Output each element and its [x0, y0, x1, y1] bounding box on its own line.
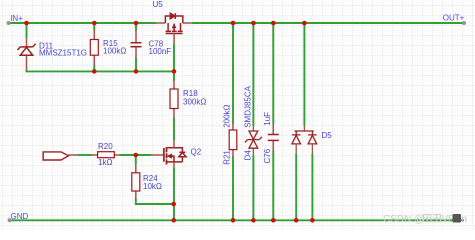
zener diode D11 — [17, 39, 35, 70]
wire R21 top — [232, 23, 234, 124]
junction GND C76 — [271, 218, 276, 223]
Q2 drain lead — [173, 140, 175, 147]
U5 source pin — [156, 22, 165, 24]
wire D4 top — [252, 23, 254, 126]
Q2 channel dashes — [166, 147, 168, 164]
wire D4 bottom — [252, 156, 254, 221]
svg-text:OUT+: OUT+ — [443, 14, 465, 23]
U5 right contact stub — [180, 23, 182, 30]
wire R18 to Q2 drain — [173, 118, 175, 141]
U5 bulk line with arrow — [173, 24, 175, 31]
U5 channel dashes — [166, 30, 183, 32]
svg-text:U5: U5 — [153, 0, 164, 9]
wire R24 bottom to Q2 source line — [136, 198, 174, 204]
n-mosfet Q2 — [151, 140, 186, 168]
wire R21 bottom — [232, 157, 234, 221]
junction GND D4 — [251, 218, 256, 223]
junction GND Q2 — [171, 218, 176, 223]
U5 gate plate — [166, 33, 183, 35]
junction gate row R24 — [134, 153, 139, 158]
wire R20 to Q2 gate — [120, 154, 152, 156]
junction top rail C76 — [271, 21, 276, 26]
U5 body diode loop — [165, 16, 182, 23]
svg-text:CSDN @: CSDN @ — [383, 214, 424, 225]
wire Q2 source to GND rail — [173, 168, 175, 220]
junction mid rail C78 — [134, 69, 139, 74]
junction top rail D5 — [302, 21, 307, 26]
Q2 body diode triangle — [179, 153, 186, 157]
svg-text:R21: R21 — [223, 150, 232, 165]
junction top rail R21 — [231, 21, 236, 26]
D4 bottom triangle — [249, 140, 258, 148]
wire D11 top stub — [26, 23, 28, 39]
svg-text:1kΩ: 1kΩ — [98, 158, 112, 167]
Q2 source lead — [173, 162, 175, 168]
dual diode D5 — [292, 126, 317, 154]
wire top rail right (U5 drain pin to OUT+) — [192, 22, 464, 24]
D5 left triangle — [292, 135, 301, 144]
wire D5 left leg to GND — [295, 154, 297, 220]
TVS diode D4 — [245, 126, 262, 155]
svg-text:300kΩ: 300kΩ — [183, 98, 206, 107]
svg-text:C76: C76 — [263, 148, 272, 163]
wire C76 bottom — [272, 151, 274, 221]
resistor R15 — [90, 30, 98, 66]
resistor R21 — [229, 124, 237, 157]
tag pin — [69, 154, 78, 156]
D5 right anode pin — [311, 144, 313, 154]
svg-text:D4: D4 — [244, 150, 253, 161]
svg-text:MMSZ15T1G: MMSZ15T1G — [39, 49, 87, 58]
svg-text:n: n — [462, 214, 468, 225]
D5 right triangle — [308, 135, 317, 144]
wire U5 gate to mid rail node — [173, 44, 175, 72]
D4 waist bar with tails — [245, 137, 262, 143]
wire mid rail (D11/R15/C78 bottoms to U5 gate node) — [27, 70, 175, 71]
junction top rail C78 — [134, 21, 139, 26]
port GND — [8, 218, 12, 222]
sheet entry tag — [43, 152, 68, 160]
D5 right cathode stub and bar — [308, 131, 317, 135]
junction mid rail R15 — [92, 69, 97, 74]
resistor R24 — [132, 165, 140, 199]
U5 drain pin — [183, 22, 192, 24]
wire GND bottom rail — [10, 219, 465, 221]
svg-text:1uF: 1uF — [263, 112, 272, 126]
D5 left anode pin — [295, 144, 297, 154]
junction top rail D4 — [251, 21, 256, 26]
Q2 gate pin — [151, 154, 163, 156]
svg-text:200kΩ: 200kΩ — [223, 104, 232, 127]
wire top rail left (IN+ to U5 source pin) — [9, 22, 156, 24]
svg-text:D5: D5 — [322, 131, 333, 140]
U5 body diode triangle — [170, 13, 175, 18]
wire C78 top stub — [135, 23, 137, 31]
junction GND D5 right — [310, 218, 315, 223]
U5 left contact stub — [167, 23, 169, 30]
junction R24 to Q2 source — [171, 202, 176, 207]
U5 body diode bar — [174, 13, 176, 19]
port OUT+ — [462, 21, 466, 25]
D4 top triangle — [249, 131, 258, 139]
junction top rail D11 — [24, 21, 29, 26]
wire gate node down to R24 — [135, 155, 137, 165]
resistor R18 — [170, 81, 178, 118]
svg-text:GND: GND — [11, 212, 29, 221]
port IN+ — [7, 21, 11, 25]
wire C78 bottom stub — [135, 58, 137, 72]
wire D5 common top — [303, 23, 305, 126]
Q2 body diode bar — [179, 151, 185, 153]
junction GND D5 left — [294, 218, 299, 223]
svg-text:SMDJ85CA: SMDJ85CA — [244, 85, 253, 127]
Q2 source line — [167, 161, 183, 163]
U5 gate lead — [173, 34, 175, 44]
capacitor C76 — [268, 125, 279, 152]
resistor R20 — [92, 152, 120, 158]
D5 left cathode stub and bar — [292, 131, 301, 135]
svg-text:Q2: Q2 — [191, 147, 202, 156]
D5 common bar — [294, 130, 314, 132]
junction top rail R15 — [92, 21, 97, 26]
wire tag to R20 — [77, 154, 92, 156]
wire C76 top — [272, 23, 274, 125]
svg-text:10kΩ: 10kΩ — [143, 182, 162, 191]
svg-text:100kΩ: 100kΩ — [103, 46, 126, 55]
junction GND R21 — [231, 218, 236, 223]
Q2 body diode loop — [174, 148, 182, 162]
junction mid rail gate node — [172, 69, 177, 74]
svg-text:100nF: 100nF — [149, 47, 172, 56]
wire R15 top stub — [93, 23, 95, 30]
p-mosfet U5 — [156, 13, 191, 43]
svg-text:R20: R20 — [98, 142, 113, 151]
capacitor C78 — [131, 30, 142, 58]
wire D5 right leg to GND — [311, 154, 313, 220]
Q2 bulk contact with arrow — [169, 156, 174, 162]
wire mid rail node to R18 — [173, 71, 175, 81]
Q2 gate bar — [163, 148, 165, 162]
Q2 drain contact — [167, 147, 175, 149]
wire R15 bottom stub — [93, 65, 95, 72]
svg-text:IN+: IN+ — [10, 14, 23, 23]
